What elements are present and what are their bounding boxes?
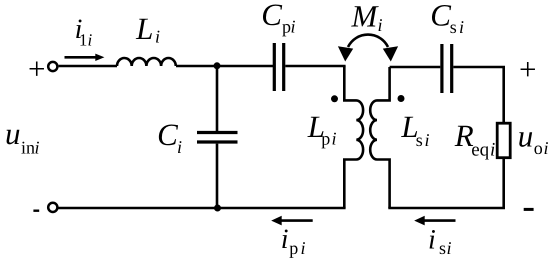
wire: C_si to output corner and down to R_eqi <box>453 67 503 123</box>
current arrow i_si <box>414 216 455 226</box>
node B (bottom junction) <box>214 205 221 212</box>
wire top-left: terminal to inductor Li <box>59 65 117 68</box>
inductor L_i <box>117 58 176 66</box>
polarity dot (primary) <box>331 95 338 102</box>
polarity dot (secondary) <box>398 95 405 102</box>
input terminal node (top left circle) <box>48 62 57 71</box>
wire: inductor to node A and on to C_pi <box>176 65 273 68</box>
terminal - (output negative) <box>524 208 534 211</box>
wire: secondary top to C_si <box>390 66 441 69</box>
terminal - (input negative) <box>33 209 39 211</box>
wire: bottom-left rail <box>57 207 345 210</box>
current arrow i_pi <box>271 216 313 226</box>
input terminal node (bottom left circle) <box>48 203 57 212</box>
capacitor C_i plates <box>197 133 238 143</box>
node A (top junction) <box>214 62 221 69</box>
inductor L_pi (primary winding) <box>344 66 363 208</box>
svg-text:+: + <box>519 51 536 86</box>
capacitor C_i : bottom lead <box>216 144 219 208</box>
inductor L_si (secondary winding) <box>370 67 389 208</box>
svg-text:+: + <box>28 51 45 86</box>
current arrow i_1i <box>65 54 105 61</box>
mutual inductance arrow M_i <box>338 35 398 62</box>
resistor R_eqi <box>497 123 510 158</box>
wire: R_eqi to bottom rail of secondary <box>388 158 503 208</box>
wire: C_pi to primary top corner <box>285 65 345 68</box>
capacitor C_i : top lead <box>216 66 219 131</box>
capacitor C_si <box>442 44 452 93</box>
capacitor C_pi <box>274 43 283 91</box>
